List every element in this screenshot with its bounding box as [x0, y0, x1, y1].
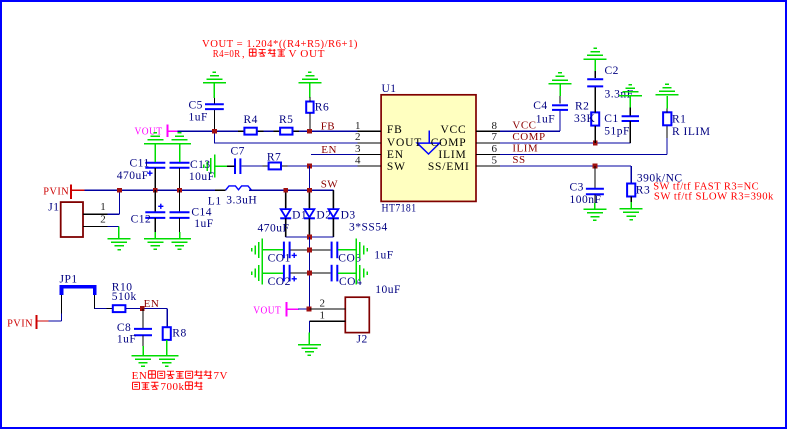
svg-text:CO3: CO3	[338, 253, 361, 265]
port VOUT (top)	[135, 125, 178, 138]
capacitor C1	[622, 96, 639, 142]
wire output column	[308, 237, 310, 309]
ground below C3	[583, 209, 606, 220]
svg-text:R1: R1	[672, 114, 686, 126]
svg-text:COMP: COMP	[431, 137, 467, 149]
capacitor CO1	[263, 242, 310, 259]
net label EN	[321, 144, 337, 156]
ground above C4	[549, 73, 572, 84]
svg-text:1uF: 1uF	[536, 113, 555, 125]
svg-text:3.3nF: 3.3nF	[605, 88, 634, 100]
net label SW	[321, 179, 339, 191]
svg-text:JP1: JP1	[60, 274, 78, 286]
resistor R2	[591, 87, 599, 143]
capacitor C8	[134, 309, 152, 356]
junction node COMP	[593, 141, 598, 146]
diode annotation 470uF	[258, 223, 290, 235]
diode D2	[304, 190, 332, 237]
port PVIN (top-left)	[43, 185, 84, 199]
svg-text:C4: C4	[533, 100, 547, 112]
U1 pin name VOUT	[387, 137, 422, 149]
ground below C8	[132, 356, 155, 367]
ground above C11	[144, 133, 167, 144]
annotation formula text	[202, 39, 358, 50]
U1 pin 4 stub	[355, 155, 381, 167]
ground left of C7	[204, 155, 235, 178]
wire PVIN to JP1	[48, 295, 61, 321]
ground below C14	[144, 239, 191, 250]
svg-text:8: 8	[492, 120, 498, 132]
ground left of CO2	[252, 262, 263, 285]
resistor R1	[663, 96, 671, 126]
ground below J2	[298, 345, 321, 356]
wire VOUT to pin2	[214, 131, 381, 143]
CO3 labels	[338, 250, 393, 265]
svg-text:R4=0R: R4=0R	[213, 49, 241, 60]
U1 pin 6 stub	[476, 143, 500, 155]
junction node C13/rail	[177, 188, 182, 193]
connector J2	[345, 297, 369, 345]
net label EN (bottom)	[144, 298, 160, 310]
svg-text:EN: EN	[144, 298, 160, 310]
svg-text:C2: C2	[605, 65, 619, 77]
ground below R3	[620, 209, 643, 220]
svg-text:SW: SW	[387, 161, 406, 173]
net label FB	[321, 120, 335, 132]
svg-text:SW: SW	[321, 179, 339, 191]
wire J2 pin1 to ground	[308, 321, 310, 344]
svg-text:C3: C3	[570, 182, 584, 194]
diode annotation 3*SS54	[349, 222, 388, 234]
J1 pin 2	[83, 213, 119, 226]
wire JP1 to R10	[95, 295, 113, 309]
C13 labels	[189, 159, 215, 183]
svg-text:10uF: 10uF	[375, 284, 401, 296]
C14 labels	[191, 207, 213, 231]
diode D1	[280, 190, 307, 237]
svg-text:R7: R7	[267, 151, 281, 163]
capacitor C7	[231, 146, 245, 174]
svg-text:3: 3	[355, 143, 361, 155]
svg-text:J1: J1	[48, 202, 59, 214]
capacitor C5	[205, 97, 224, 132]
annotation formula line2	[213, 49, 326, 61]
resistor R5	[274, 114, 299, 135]
C8 labels	[117, 322, 136, 346]
svg-text:VOUT: VOUT	[387, 137, 422, 149]
svg-text:3*SS54: 3*SS54	[349, 222, 388, 234]
svg-text:R2: R2	[575, 101, 589, 113]
resistor R8	[163, 309, 187, 340]
U1 pin 2 stub	[355, 131, 381, 143]
capacitor CO2	[263, 265, 310, 282]
svg-text:470uF: 470uF	[258, 223, 290, 235]
resistor R3	[627, 184, 635, 209]
R1 labels	[672, 114, 710, 139]
svg-text:HT7181: HT7181	[382, 203, 417, 215]
capacitor C13	[170, 144, 190, 190]
wire COMP net	[500, 142, 631, 144]
wire ILIM net	[500, 125, 667, 154]
svg-text:3.3uH: 3.3uH	[226, 195, 257, 207]
svg-text:R3: R3	[636, 185, 650, 197]
port VOUT (bottom)	[253, 302, 298, 316]
capacitor C2	[587, 60, 603, 87]
svg-text:VCC: VCC	[440, 124, 466, 136]
svg-text:510k: 510k	[112, 291, 137, 303]
junction node SS	[593, 164, 598, 169]
svg-text:1uF: 1uF	[374, 250, 393, 262]
annotation SW SLOW	[654, 191, 774, 203]
svg-text:51pF: 51pF	[604, 126, 630, 138]
svg-text:PVIN: PVIN	[7, 318, 33, 330]
wire SW pin4	[242, 165, 381, 167]
ground below C12	[144, 239, 167, 250]
svg-text:VCC: VCC	[512, 120, 536, 132]
U1 pin 8 stub	[476, 120, 500, 132]
U1 pin 3 stub	[355, 143, 381, 155]
wire SW pin4 down to rail	[308, 166, 310, 190]
svg-text:CO4: CO4	[339, 276, 362, 288]
R2 labels	[574, 101, 596, 125]
C12 labels	[131, 204, 164, 226]
ground above C1	[619, 85, 642, 96]
ground above C5	[203, 72, 226, 98]
svg-text:EN: EN	[387, 149, 404, 161]
svg-text:1: 1	[320, 310, 326, 322]
junction node CO2 row	[307, 271, 312, 276]
ground above C2	[584, 48, 607, 59]
svg-text:C14: C14	[191, 207, 212, 219]
svg-text:R ILIM: R ILIM	[672, 126, 710, 138]
U1 pin 1 stub	[355, 120, 381, 132]
ground right of CO4	[356, 262, 367, 285]
J2 pin 2	[309, 298, 345, 310]
port PVIN (bottom-left)	[7, 315, 48, 330]
capacitor CO4	[309, 265, 356, 282]
wire VOUT rail to FB pin	[178, 130, 382, 132]
svg-text:FB: FB	[321, 120, 335, 132]
svg-text:J2: J2	[357, 334, 368, 346]
capacitor C12	[145, 190, 165, 238]
U1 pin name FB	[387, 124, 403, 136]
svg-text:R6: R6	[315, 102, 329, 114]
svg-text:ILIM: ILIM	[438, 149, 466, 161]
inductor L1	[215, 186, 262, 190]
ground right of CO3	[356, 238, 367, 261]
wire R10 to EN node	[126, 308, 167, 310]
ground above R1	[656, 84, 679, 95]
svg-text:COMP: COMP	[512, 131, 545, 143]
R3 labels	[636, 173, 683, 197]
svg-text:C13: C13	[190, 159, 211, 171]
U1 designator	[382, 83, 397, 95]
wire VCC net	[500, 110, 560, 131]
ground above R6	[298, 72, 321, 102]
wire SS net	[500, 166, 631, 184]
svg-text:1uF: 1uF	[194, 218, 213, 230]
annotation EN warning line2	[132, 381, 202, 393]
junction node SW pin4	[307, 164, 312, 169]
wire J1 pin1 to rail	[118, 190, 120, 214]
J1 pin 1	[83, 201, 119, 214]
U1 part number HT7181	[382, 203, 417, 215]
capacitor C4	[552, 84, 568, 110]
svg-text:U1: U1	[382, 83, 397, 95]
svg-text:C12: C12	[131, 214, 152, 226]
capacitor CO3	[309, 242, 356, 259]
net label VCC	[512, 120, 536, 132]
junction node D1/rail	[283, 188, 288, 193]
U1 pin 5 stub	[476, 155, 500, 167]
svg-text:C5: C5	[189, 100, 203, 112]
junction node C5/VOUT	[212, 129, 217, 134]
svg-text:ILIM: ILIM	[512, 143, 538, 155]
wire VOUT port to J2 node	[298, 308, 310, 310]
L1 labels	[208, 195, 257, 208]
junction node EN	[140, 306, 145, 311]
svg-text:C1: C1	[604, 113, 618, 125]
CO4 labels	[339, 276, 401, 296]
svg-text:EN: EN	[321, 144, 337, 156]
svg-text:2: 2	[355, 131, 361, 143]
svg-text:SS/EMI: SS/EMI	[428, 161, 470, 173]
net label COMP	[512, 131, 545, 143]
C1 labels	[604, 113, 630, 138]
svg-text:5: 5	[492, 155, 498, 167]
U1 internal symbol	[417, 131, 439, 154]
resistor R10	[107, 282, 137, 313]
svg-text:VOUT: VOUT	[253, 306, 281, 317]
svg-text:R4: R4	[244, 114, 258, 126]
resistor R6	[306, 102, 329, 132]
U1 pin name EN	[387, 149, 404, 161]
resistor R7	[262, 151, 287, 169]
svg-text:C8: C8	[117, 322, 131, 334]
C3 labels	[570, 182, 602, 207]
svg-text:1uF: 1uF	[189, 112, 208, 124]
junction node D2/rail	[307, 188, 312, 193]
U1 pin name VCC	[440, 124, 466, 136]
ground below R8	[132, 356, 179, 367]
svg-text:EN: EN	[132, 370, 148, 382]
svg-text:2: 2	[320, 298, 326, 310]
svg-text:4: 4	[355, 155, 361, 167]
svg-text:6: 6	[492, 143, 498, 155]
C2 labels	[605, 65, 634, 100]
op-amp U1 body	[381, 95, 476, 202]
svg-text:2: 2	[100, 213, 106, 225]
svg-text:7: 7	[492, 131, 498, 143]
U1 pin name COMP	[431, 137, 467, 149]
svg-text:C7: C7	[231, 146, 245, 158]
junction node diode bus	[307, 235, 312, 240]
svg-text:1: 1	[100, 201, 106, 213]
svg-text:470uF: 470uF	[117, 170, 149, 182]
svg-text:1: 1	[355, 120, 361, 132]
U1 pin name SW	[387, 161, 406, 173]
wire PVIN rail	[85, 189, 226, 191]
svg-text:C11: C11	[130, 158, 150, 170]
J2 pin 1	[309, 310, 345, 322]
svg-text:SS: SS	[512, 154, 525, 166]
capacitor C3	[586, 166, 604, 209]
annotation EN warning line1	[132, 370, 228, 382]
svg-text:PVIN: PVIN	[43, 186, 69, 198]
diode D3	[328, 190, 356, 237]
junction node FB	[307, 129, 312, 134]
wire R8 to ground	[166, 340, 168, 355]
junction node CO1 row	[307, 248, 312, 253]
net label ILIM	[512, 143, 538, 155]
ground above C13	[144, 133, 191, 144]
svg-text:,: ,	[242, 49, 245, 60]
wire EN net	[311, 154, 381, 156]
svg-text:R8: R8	[172, 328, 186, 340]
svg-text:7V: 7V	[214, 370, 228, 382]
svg-text:CO1: CO1	[268, 253, 291, 265]
connector J1	[48, 202, 83, 238]
ground left of CO1	[252, 238, 263, 261]
C4 labels	[533, 100, 555, 125]
U1 pin name SS/EMI	[428, 161, 470, 173]
C5 value label	[189, 100, 208, 124]
CO1 labels	[268, 253, 297, 265]
CO2 labels	[268, 276, 297, 288]
capacitor C14	[170, 190, 190, 238]
junction node VOUT port	[307, 307, 312, 312]
C11 labels	[117, 158, 153, 182]
svg-text:V OUT: V OUT	[289, 49, 326, 60]
wire SW rail	[249, 190, 333, 209]
svg-text:SW tf/tf SLOW R3=390k: SW tf/tf SLOW R3=390k	[654, 191, 774, 203]
svg-text:FB: FB	[387, 124, 403, 136]
U1 pin name ILIM	[438, 149, 466, 161]
resistor R4	[238, 114, 263, 135]
svg-text:10uF: 10uF	[189, 171, 215, 183]
wire J1 pin2 to ground	[118, 226, 120, 238]
svg-text:R5: R5	[279, 114, 293, 126]
jumper JP1	[60, 274, 95, 296]
svg-text:1uF: 1uF	[117, 333, 136, 345]
ground below J1	[108, 239, 131, 250]
annotation SW FAST	[653, 180, 759, 192]
svg-text:D3: D3	[341, 210, 356, 222]
svg-text:CO2: CO2	[268, 276, 291, 288]
svg-text:100nF: 100nF	[570, 194, 602, 206]
capacitor C11	[145, 144, 165, 190]
wire diode output bus	[286, 236, 334, 238]
svg-text:700k: 700k	[161, 381, 185, 393]
U1 pin 7 stub	[476, 131, 500, 143]
svg-text:33K: 33K	[574, 113, 596, 125]
junction node C11/rail	[153, 188, 158, 193]
net label SS	[512, 154, 525, 166]
junction node J1/rail	[117, 188, 122, 193]
